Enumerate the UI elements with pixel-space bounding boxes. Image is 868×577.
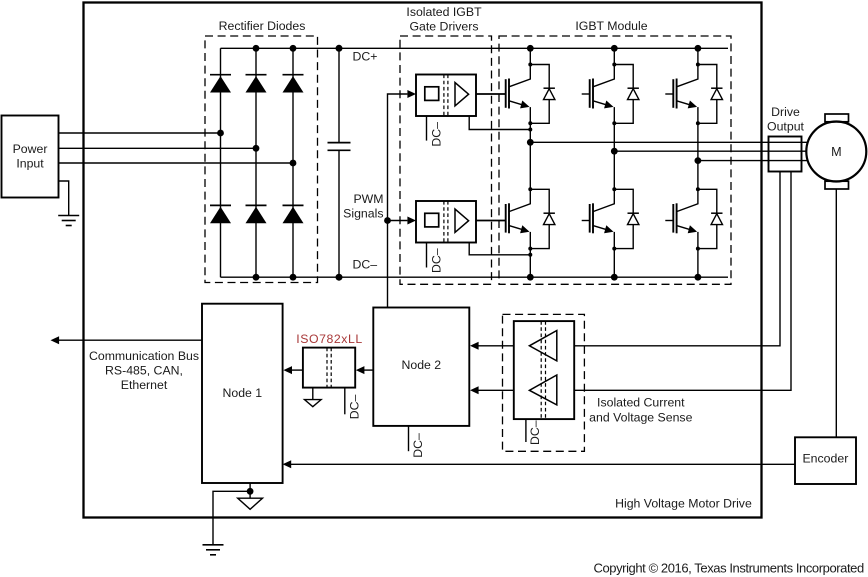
- digital isolator ISO782xLL: [303, 348, 355, 388]
- wire: isolator to Node 1: [292, 369, 303, 371]
- node: DC+ bus / leg 3: [695, 45, 702, 52]
- node: phase C junction: [290, 160, 297, 167]
- node: DC- / capacitor: [336, 274, 343, 281]
- transistor Q1 (top IGBT leg 1): [476, 65, 530, 124]
- svg-text:Isolated Current: Isolated Current: [597, 396, 685, 410]
- label: Node 2: [401, 358, 441, 372]
- isolated sense dashed box: [503, 314, 585, 451]
- wire: PWM signals vertical: [388, 94, 408, 308]
- svg-text:and Voltage Sense: and Voltage Sense: [589, 410, 692, 424]
- op-amp A1 (current sense): [529, 331, 556, 361]
- diode D2: [246, 75, 267, 93]
- arrow into gate driver U2: [407, 217, 416, 225]
- label: DC- (Node 2): [411, 433, 425, 458]
- signal ground (isolator): [305, 400, 322, 407]
- node: Node 1 ground junction: [247, 488, 254, 495]
- node: phase 3 output junction: [695, 157, 702, 164]
- label: Isolated Current and Voltage Sense: [589, 396, 692, 425]
- block: Node 1: [202, 304, 283, 483]
- wire: Node 2 DC- stub: [408, 426, 410, 451]
- wire: sense output 2 to Node 2: [478, 389, 514, 391]
- wire: leg 1 mid section: [529, 123, 531, 189]
- label: DC- (bus): [353, 258, 378, 272]
- label: DC- (U1): [430, 122, 444, 147]
- wire: leg 2 bottom stub: [613, 249, 615, 278]
- node: Q4 emitter return junction: [528, 253, 532, 257]
- wire: U2 output to Q4 gate: [476, 220, 506, 222]
- label: M: [831, 145, 842, 159]
- wire: power input ground stub: [59, 181, 69, 216]
- arrow into gate driver U1: [407, 90, 416, 98]
- node: DC- bus / leg 2: [611, 274, 618, 281]
- arrow into isolator (from Node 2): [356, 366, 365, 374]
- gate drivers dashed box: [400, 36, 492, 284]
- wire: phase 2 output: [614, 150, 806, 152]
- diode D12 (freewheel, Q6): [698, 189, 723, 248]
- label: Drive Output: [767, 105, 804, 134]
- wire: communication bus: [59, 339, 202, 341]
- node: Q6 emitter: [696, 247, 700, 251]
- node: DC+ bus / column 3: [290, 45, 297, 52]
- node: phase B junction: [253, 145, 260, 152]
- label: DC- (isolator): [347, 395, 361, 420]
- transistor Q3 (top IGBT leg 3): [665, 65, 698, 124]
- wire: DC+ bus: [221, 47, 729, 49]
- wire: rectifier column 1: [220, 48, 222, 277]
- wire: leg 3 top stub: [697, 48, 699, 64]
- capacitor C1: [328, 143, 351, 151]
- svg-text:Power: Power: [13, 142, 48, 156]
- svg-text:RS-485, CAN,: RS-485, CAN,: [105, 364, 183, 378]
- label: Node 1: [222, 386, 262, 400]
- wire: sense DC- stub: [525, 419, 527, 442]
- wire: current sense tap 1: [574, 172, 780, 346]
- svg-text:High Voltage Motor Drive: High Voltage Motor Drive: [615, 497, 752, 511]
- diode D3: [283, 75, 304, 93]
- label: DC- (U2): [430, 248, 444, 273]
- svg-text:PWM: PWM: [353, 192, 383, 206]
- gate driver U2: [416, 201, 476, 243]
- capacitor C1 bottom lead: [338, 150, 340, 277]
- label: Rectifier Diodes: [219, 19, 306, 33]
- wire: Node 1 to earth ground: [213, 491, 250, 545]
- wire: sense output 1 to Node 2: [478, 345, 514, 347]
- label: Isolated IGBT Gate Drivers: [406, 5, 482, 34]
- svg-text:Copyright © 2016, Texas Instru: Copyright © 2016, Texas Instruments Inco…: [594, 560, 864, 575]
- motor bottom brush: [825, 181, 849, 189]
- motor M circle: [806, 122, 866, 182]
- label: DC+: [353, 50, 378, 64]
- capacitor C1 top lead: [338, 48, 340, 142]
- node: DC- bus / leg 1: [527, 274, 534, 281]
- svg-text:Output: Output: [767, 120, 804, 134]
- transistor Q5 (bottom IGBT leg 2): [582, 189, 615, 248]
- block: Power Input: [2, 116, 59, 198]
- arrow into Node 1 (encoder feedback): [283, 460, 292, 468]
- svg-text:M: M: [831, 145, 842, 159]
- wire: encoder to Node 1: [291, 463, 795, 465]
- node: Q2 collector: [612, 63, 616, 67]
- node: phase 1 output junction: [527, 139, 534, 146]
- node: PWM junction: [384, 217, 391, 224]
- label: ISO782xLL: [296, 332, 362, 346]
- svg-text:Encoder: Encoder: [802, 451, 848, 465]
- wire phase A (Power Input to rectifier): [59, 132, 221, 134]
- signal ground (Node 1): [238, 498, 263, 509]
- wire: phase 3 output: [698, 160, 808, 162]
- wire: isolator DC- stub: [344, 388, 346, 415]
- diode D5: [246, 205, 267, 223]
- transistor Q2 (top IGBT leg 2): [582, 65, 615, 124]
- outer enclosure box (High Voltage Motor Drive): [84, 3, 762, 518]
- label: Power Input: [13, 142, 48, 171]
- node: Q2 emitter: [612, 121, 616, 125]
- node: phase A junction: [217, 130, 224, 137]
- node: Q4 collector: [528, 187, 532, 191]
- arrow into Node 2 (sense 1): [470, 342, 479, 350]
- diode D8 (freewheel, Q2): [614, 65, 639, 124]
- wire: U2 emitter return: [469, 243, 530, 255]
- node: DC+ bus / leg 1: [527, 45, 534, 52]
- svg-text:DC–: DC–: [430, 122, 444, 147]
- op-amp A2 (voltage sense): [529, 375, 556, 405]
- node: Q5 emitter: [612, 247, 616, 251]
- diode D11 (freewheel, Q5): [614, 189, 639, 248]
- svg-text:DC+: DC+: [353, 50, 378, 64]
- wire: isolator ground stub: [312, 388, 314, 400]
- rectifier dashed box: [205, 36, 318, 283]
- wire: Node 2 to isolator: [364, 369, 373, 371]
- wire: leg 2 mid section: [613, 123, 615, 189]
- node: DC+ / capacitor: [336, 45, 343, 52]
- isolated amplifier block: [514, 321, 574, 419]
- wire: DC- bus: [221, 276, 729, 278]
- svg-text:Node 2: Node 2: [401, 358, 441, 372]
- transistor Q4 (bottom IGBT leg 1): [476, 189, 530, 248]
- svg-text:Input: Input: [16, 157, 44, 171]
- node: phase 2 output junction: [611, 148, 618, 155]
- earth ground (Node 1): [203, 545, 224, 555]
- wire: U2 DC- stub: [426, 243, 428, 268]
- node: DC- bus / column 3: [290, 274, 297, 281]
- diode D4: [210, 205, 231, 223]
- wire: U1 emitter return: [469, 116, 530, 130]
- label: DC- (sense): [528, 420, 542, 445]
- node: DC+ bus / leg 2: [611, 45, 618, 52]
- wire: U1 output to Q1 gate: [476, 93, 506, 95]
- node: Q1 collector: [528, 63, 532, 67]
- arrow into Node 1 (from isolator): [283, 366, 292, 374]
- label: PWM Signals: [343, 192, 383, 221]
- motor top brush: [825, 114, 849, 122]
- node: Q3 emitter: [696, 121, 700, 125]
- svg-text:DC–: DC–: [430, 248, 444, 273]
- label: IGBT Module: [575, 19, 647, 33]
- node: Q5 collector: [612, 187, 616, 191]
- diode D1: [210, 75, 231, 93]
- svg-text:Communication Bus: Communication Bus: [89, 349, 199, 363]
- wire: rectifier column 2: [255, 48, 257, 277]
- wire: leg 1 top stub: [529, 48, 531, 64]
- node: DC+ bus / column 2: [253, 45, 260, 52]
- gate driver U1: [416, 75, 476, 117]
- node: DC- bus / leg 3: [695, 274, 702, 281]
- node: Q4 emitter: [528, 247, 532, 251]
- label: High Voltage Motor Drive: [615, 497, 752, 511]
- wire: leg 2 top stub: [613, 48, 615, 64]
- earth ground (power input): [58, 216, 79, 226]
- wire phase C: [59, 162, 294, 164]
- label: Communication Bus RS-485 CAN Ethernet: [89, 349, 199, 392]
- wire: leg 3 mid section: [697, 123, 699, 189]
- arrow: communication bus (left): [51, 336, 60, 344]
- label: Encoder: [802, 451, 848, 465]
- wire: voltage sense tap 2: [574, 172, 791, 391]
- diode D6: [283, 205, 304, 223]
- svg-text:Gate Drivers: Gate Drivers: [409, 20, 478, 34]
- wire: U1 DC- stub: [426, 116, 428, 141]
- wire: rectifier column 3: [292, 48, 294, 277]
- svg-text:DC–: DC–: [528, 420, 542, 445]
- svg-text:Node 1: Node 1: [222, 386, 262, 400]
- svg-text:Drive: Drive: [771, 105, 800, 119]
- svg-text:Rectifier Diodes: Rectifier Diodes: [219, 19, 306, 33]
- wire phase B: [59, 147, 257, 149]
- svg-text:DC–: DC–: [347, 395, 361, 420]
- wire: leg 1 bottom stub: [529, 249, 531, 278]
- label: copyright notice: [594, 560, 864, 575]
- svg-text:DC–: DC–: [353, 258, 378, 272]
- node: Q1 emitter: [528, 121, 532, 125]
- wire: leg 3 bottom stub: [697, 249, 699, 278]
- block: Encoder: [795, 437, 856, 484]
- wire: motor shaft to encoder: [835, 189, 837, 437]
- wire: phase 1 output: [530, 141, 808, 143]
- wire: PWM branch to U2: [388, 220, 408, 222]
- svg-text:Isolated IGBT: Isolated IGBT: [406, 5, 482, 19]
- block: Drive Output: [769, 137, 802, 172]
- svg-text:IGBT Module: IGBT Module: [575, 19, 647, 33]
- svg-text:Ethernet: Ethernet: [121, 378, 168, 392]
- node: Q1 emitter return junction: [528, 128, 532, 132]
- svg-text:ISO782xLL: ISO782xLL: [296, 332, 362, 346]
- wire: Node 1 ground stub: [249, 483, 251, 498]
- transistor Q6 (bottom IGBT leg 3): [665, 189, 698, 248]
- svg-text:DC–: DC–: [411, 433, 425, 458]
- block: Node 2: [373, 308, 469, 426]
- node: Q3 collector: [696, 63, 700, 67]
- IGBT module dashed box: [499, 36, 731, 284]
- diode D10 (freewheel, Q4): [530, 189, 555, 248]
- diode D9 (freewheel, Q3): [698, 65, 723, 124]
- node: Q6 collector: [696, 187, 700, 191]
- svg-text:Signals: Signals: [343, 207, 383, 221]
- node: DC- bus / column 2: [253, 274, 260, 281]
- arrow into Node 2 (sense 2): [470, 386, 479, 394]
- diode D7 (freewheel, Q1): [530, 65, 555, 124]
